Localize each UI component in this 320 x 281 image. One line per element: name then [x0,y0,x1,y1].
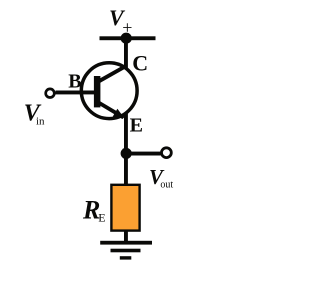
label Vout [149,165,173,190]
wire: node to output terminal [126,152,161,156]
label V+ [109,5,132,37]
wire: rail to collector [124,38,128,68]
svg-text:B: B [68,71,81,93]
svg-text:C: C [132,51,148,76]
wire: resistor to ground [124,230,128,242]
svg-text:E: E [98,210,105,224]
ground bar 1 [100,241,152,245]
input terminal (Vin) [46,89,55,98]
ground bar 3 [120,256,132,259]
wire: emitter down to node [124,114,128,154]
svg-text:E: E [130,115,143,137]
label Vin [24,100,45,127]
transistor Q1 [81,63,137,119]
wire: node down to resistor [124,153,128,184]
resistor RE [111,185,139,231]
wire: V+ supply rail [100,36,156,40]
junction dot on V+ rail [121,33,132,44]
svg-text:out: out [160,179,173,190]
output terminal (Vout) [162,148,172,158]
label RE [82,196,106,225]
ground bar 2 [111,249,141,253]
wire: base input [56,91,97,95]
junction node dot [121,148,132,159]
svg-text:in: in [36,116,45,128]
